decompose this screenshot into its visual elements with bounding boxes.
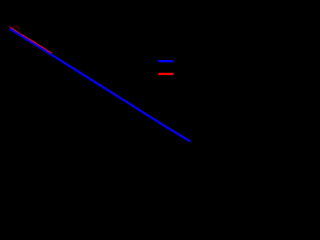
blue data line bbox=[11, 29, 191, 141]
legend red handle bbox=[159, 73, 174, 75]
legend blue handle bbox=[159, 60, 174, 62]
red data line (noisy, hugs upper edge of blue at start) bbox=[11, 28, 51, 53]
faint red speckles near start bbox=[9, 26, 20, 30]
